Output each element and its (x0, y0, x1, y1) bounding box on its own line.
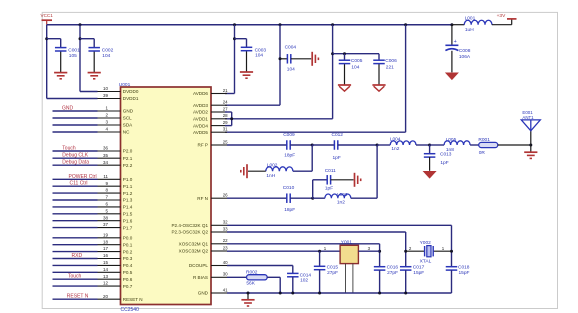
svg-text:11: 11 (103, 174, 108, 179)
pin 30 R_BIAS stub (193, 272, 228, 280)
wire L005 to R001 (470, 144, 479, 146)
svg-text:ANT1: ANT1 (522, 115, 534, 120)
wire DVDD1 drop x47 (47, 25, 98, 99)
capacitor C008 106A polarized (445, 39, 471, 60)
net label C11 Ctrl (70, 181, 88, 187)
wire P2 row y165.2 (53, 164, 98, 166)
capacitor C018 15pF (446, 265, 470, 277)
wire DCOUPL down (292, 266, 294, 274)
node antenna feed (529, 144, 532, 147)
wire XOSC32M Q1 row (227, 243, 380, 245)
wire P1 row y206.9 (53, 206, 98, 208)
pin 10 DVDD0 stub (98, 86, 139, 94)
wire R_BIAS row (227, 276, 247, 278)
svg-text:20: 20 (103, 294, 109, 299)
op-amp U1 IC body CC2540 (121, 87, 212, 305)
capacitor C013 1pF (424, 152, 452, 166)
svg-text:Y001: Y001 (341, 240, 353, 246)
svg-text:R001: R001 (478, 137, 490, 143)
net label Touch P2.0 (62, 146, 76, 152)
svg-text:P1.0: P1.0 (123, 177, 133, 182)
svg-text:DCOUPL: DCOUPL (189, 263, 209, 268)
pin 18 P0.1 stub (98, 239, 133, 247)
pin 41 GND stub (198, 287, 228, 295)
pin 39 DVDD1 stub (98, 93, 139, 101)
pin 17 P0.2 stub (98, 246, 133, 254)
svg-text:+: + (454, 39, 457, 45)
IC part name CC2540 (121, 307, 140, 313)
junction C015 tap (318, 250, 321, 253)
junction C002 tap (79, 37, 82, 40)
svg-text:56K: 56K (246, 281, 255, 287)
junction C003 tap (233, 37, 236, 40)
svg-text:C008: C008 (459, 48, 471, 54)
wire C013 top lead (429, 145, 431, 154)
wire P1 row y193.1 (53, 192, 98, 194)
svg-text:L004: L004 (390, 137, 401, 143)
svg-text:30: 30 (223, 272, 228, 277)
svg-text:104: 104 (351, 64, 359, 70)
svg-text:27pF: 27pF (387, 270, 398, 276)
pin 9 P1.1 stub (98, 181, 133, 189)
wire XOSC32M Q2 row (227, 250, 340, 252)
svg-text:14: 14 (103, 267, 109, 272)
svg-text:R BIAS: R BIAS (193, 275, 208, 280)
wire C011 horizontal (313, 179, 327, 181)
svg-text:AVDD3: AVDD3 (193, 103, 208, 108)
resistor R002 56K (246, 270, 267, 287)
svg-text:24: 24 (223, 100, 228, 105)
svg-text:26: 26 (223, 193, 228, 198)
wire L004 to node3 (416, 144, 430, 146)
wire C004 to ground (291, 58, 311, 60)
wire C001 branch (47, 39, 61, 72)
svg-text:Debug Data: Debug Data (62, 160, 89, 166)
capacitor C017 15pF (400, 265, 425, 277)
pin 27 AVDD2 stub (193, 106, 228, 114)
ground C004 sideways (312, 52, 318, 66)
svg-text:Touch: Touch (68, 274, 82, 280)
junction GND C016 (378, 292, 381, 295)
wire P0 row y279.2 (53, 278, 98, 280)
capacitor C011 1pF (325, 168, 336, 192)
wire C015 bottom (319, 270, 321, 293)
pin 13 P0.6 stub (98, 274, 133, 282)
svg-text:P1.6: P1.6 (123, 218, 133, 223)
wire C011 vertical (312, 180, 314, 198)
wire R001 to antenna node (498, 144, 531, 146)
power net VCC1 symbol (41, 13, 54, 25)
svg-text:RF N: RF N (197, 196, 208, 201)
svg-text:Touch: Touch (62, 146, 76, 152)
IC designator U001 (119, 82, 131, 88)
wire OSC32K Q2 row (227, 231, 406, 233)
svg-text:1uH: 1uH (465, 27, 474, 33)
svg-text:106A: 106A (459, 54, 471, 60)
capacitor C015 27pF (314, 264, 339, 276)
pin 25 RF_P stub (198, 139, 229, 147)
wire P0 row y244.7 (53, 244, 98, 246)
svg-text:RESET N: RESET N (67, 294, 89, 300)
junction rail end x452 (450, 23, 453, 26)
svg-text:P0.1: P0.1 (123, 242, 133, 247)
wire C005 C006 sub-bus (333, 53, 379, 55)
ground C001 (54, 73, 67, 79)
wire antenna feed up (530, 131, 532, 145)
pin 38 P1.6 stub (98, 215, 133, 223)
wire C011 to ground (331, 179, 354, 181)
pin 34 P2.2 stub (98, 160, 133, 168)
pin 26 RF_N stub (197, 193, 228, 201)
pin 12 P0.7 stub (98, 281, 133, 289)
wire P1 row y186.2 (53, 185, 98, 187)
svg-text:34: 34 (103, 160, 109, 165)
junction C004 tap (279, 57, 282, 60)
node RF_P match (311, 144, 314, 147)
wire P2 row y151 (53, 150, 98, 152)
svg-text:NC: NC (123, 130, 130, 135)
svg-text:1pF: 1pF (440, 160, 448, 166)
wire RF_N to C010 (227, 197, 287, 199)
svg-text:L002: L002 (267, 163, 278, 169)
pin 24 AVDD3 stub (193, 100, 228, 108)
ground C002 (88, 73, 101, 79)
wire C014 bottom (292, 277, 294, 293)
inductor L001 1uH (464, 15, 492, 32)
svg-text:AVDD1: AVDD1 (193, 117, 208, 122)
junction C005 tap (343, 52, 346, 55)
svg-text:104: 104 (287, 67, 295, 73)
wire XOSC32M Q1 down (379, 244, 381, 267)
wire C008 bottom lead (451, 51, 453, 73)
net label Debug Data (62, 160, 89, 166)
wire L002 to ground (248, 170, 266, 172)
pin 29 AVDD4 stub (193, 120, 228, 128)
resistor R001 0R (478, 137, 497, 156)
wire P0 row y251.6 (53, 251, 98, 253)
svg-text:1pF: 1pF (325, 186, 333, 192)
svg-text:P2.3-OSC32K Q2: P2.3-OSC32K Q2 (171, 230, 208, 235)
wire RESET row (53, 298, 98, 300)
svg-text:GND: GND (198, 291, 209, 296)
svg-text:C018: C018 (458, 265, 470, 271)
svg-text:U001: U001 (119, 82, 131, 88)
inductor L003 1n2 (325, 192, 351, 205)
svg-text:XOSC32M Q1: XOSC32M Q1 (179, 242, 209, 247)
svg-text:27: 27 (223, 106, 228, 111)
inductor L002 1nH (266, 163, 293, 179)
wire C016 bottom (379, 270, 381, 293)
svg-text:C004: C004 (285, 44, 297, 50)
svg-text:L005: L005 (446, 137, 457, 143)
wire left pin row y132 (53, 131, 98, 133)
junction GND R002 (279, 292, 282, 295)
svg-text:16: 16 (103, 253, 109, 258)
svg-text:P1.3: P1.3 (123, 198, 133, 203)
junction on rail x280 (279, 23, 282, 26)
pin 6 P1.4 stub (98, 202, 133, 210)
svg-text:C001: C001 (68, 47, 80, 53)
junction GND C017 (404, 292, 407, 295)
svg-text:1pF: 1pF (333, 155, 341, 161)
net label Debug CLK (62, 153, 89, 159)
svg-text:SDA: SDA (123, 123, 133, 128)
svg-text:C012: C012 (332, 132, 344, 138)
wire AVDD1 drop x332 (225, 25, 333, 119)
junction GND C014 (291, 292, 294, 295)
junction on rail x234 (233, 23, 236, 26)
svg-text:29: 29 (223, 120, 228, 125)
svg-text:C005: C005 (351, 58, 363, 64)
net label RXD (72, 253, 83, 259)
junction on rail x80 (79, 23, 82, 26)
wire DVDD2 drop x80 (80, 25, 98, 92)
svg-text:18: 18 (103, 239, 109, 244)
svg-text:C017: C017 (413, 265, 425, 271)
capacitor C012 1pF (332, 132, 344, 161)
svg-text:32: 32 (223, 220, 228, 225)
crystal Y001 32MHz body (324, 240, 371, 264)
wire C004 lead (280, 58, 287, 60)
svg-text:C011: C011 (325, 168, 336, 174)
wire OSC32K Q1 down (451, 225, 453, 266)
wire C002 branch (80, 39, 94, 72)
wire GND net row (227, 292, 452, 294)
wire C015 down (319, 251, 321, 266)
svg-text:VCC1: VCC1 (41, 13, 54, 18)
wire AVDD4 row (225, 125, 232, 127)
svg-text:P0.5: P0.5 (123, 270, 133, 275)
svg-text:RXD: RXD (72, 253, 83, 259)
wire AVDD bus vertical (231, 112, 233, 126)
pin 37 P1.7 stub (98, 222, 133, 230)
junction Y002 pin1 (450, 250, 453, 253)
wire C012 to node2 (338, 144, 377, 146)
svg-text:AVDD6: AVDD6 (193, 91, 208, 96)
capacitor C016 27pF (374, 264, 399, 276)
net label POWER Ctrl (69, 174, 97, 180)
junction Y001 pin3 (378, 250, 381, 253)
capacitor C014 102 (287, 272, 311, 283)
wire R002 to ground leg (267, 277, 280, 293)
pin 40 DCOUPL stub (189, 260, 228, 268)
svg-text:P1.2: P1.2 (123, 191, 133, 196)
svg-text:41: 41 (223, 287, 228, 292)
svg-text:P1.5: P1.5 (123, 212, 133, 217)
svg-text:15pF: 15pF (413, 270, 424, 276)
wire left pin row y125 (53, 124, 98, 126)
pin 4 NC stub (98, 127, 131, 135)
svg-text:DVDD1: DVDD1 (123, 96, 139, 101)
pin 5 P1.5 stub (98, 208, 133, 216)
pin 21 AVDD6 stub (193, 88, 228, 96)
svg-text:P0.3: P0.3 (123, 256, 133, 261)
pin 28 AVDD1 stub (193, 113, 228, 121)
wire C008 top lead (451, 25, 453, 45)
pin 33 P2.3-OSC32K_Q2 stub (171, 226, 228, 234)
svg-text:15pF: 15pF (459, 270, 470, 276)
pin 14 P0.5 stub (98, 267, 133, 275)
svg-text:25: 25 (223, 139, 228, 144)
svg-text:XOSC32M Q2: XOSC32M Q2 (179, 249, 209, 254)
wire P0 row y258.5 (53, 258, 98, 260)
net label RESET N (67, 294, 89, 300)
wire DCOUPL row (227, 265, 293, 267)
pin 20 RESET N stub (98, 294, 143, 302)
ground antenna (524, 145, 537, 158)
svg-text:105: 105 (69, 53, 77, 59)
svg-text:10: 10 (103, 86, 109, 91)
junction AVDD bus x AVDD1 (230, 117, 233, 120)
svg-text:P2.4-OSC32K Q1: P2.4-OSC32K Q1 (171, 223, 208, 228)
crystal Y002 XTAL (406, 240, 452, 264)
wire C006 leads (378, 54, 380, 85)
svg-text:13: 13 (103, 274, 109, 279)
svg-text:L001: L001 (465, 15, 476, 21)
power net +3V symbol (497, 13, 517, 19)
wire P0 row y272.3 (53, 271, 98, 273)
wire AVDD2 row (225, 111, 232, 113)
ground C003 (240, 72, 253, 78)
junction on rail x405 (404, 23, 407, 26)
svg-text:P1.1: P1.1 (123, 184, 133, 189)
node RF_N match (311, 197, 314, 200)
antenna E001 ANT1 (521, 110, 540, 131)
wire node to L004 (377, 144, 390, 146)
svg-text:XTAL: XTAL (420, 258, 432, 264)
pin 36 P2.0 stub (98, 146, 133, 154)
svg-text:P2.1: P2.1 (123, 156, 133, 161)
capacitor C002 104 (88, 47, 113, 59)
svg-text:P2.0: P2.0 (123, 149, 133, 154)
pin 31 AVDD5 stub (193, 127, 228, 135)
svg-text:GND: GND (62, 106, 74, 112)
ground C005 (338, 85, 351, 91)
svg-text:37: 37 (103, 222, 109, 227)
pin 19 P0.0 stub (98, 232, 133, 240)
svg-text:C003: C003 (255, 47, 267, 53)
svg-text:19: 19 (103, 232, 109, 237)
svg-text:23: 23 (223, 245, 228, 250)
svg-text:C11 Ctrl: C11 Ctrl (70, 181, 88, 187)
svg-text:R002: R002 (246, 270, 258, 276)
ground C013 (423, 171, 437, 179)
svg-text:17: 17 (103, 246, 109, 251)
svg-text:GND: GND (123, 109, 134, 114)
svg-text:P0.2: P0.2 (123, 249, 133, 254)
svg-text:39: 39 (103, 93, 109, 98)
ground GND net (241, 300, 254, 306)
pin 22 XOSC32M_Q1 stub (179, 238, 229, 246)
svg-text:104: 104 (102, 53, 110, 59)
svg-text:P0.0: P0.0 (123, 236, 133, 241)
svg-text:AVDD2: AVDD2 (193, 110, 208, 115)
svg-text:Y002: Y002 (420, 240, 432, 246)
wire L001 to +3V (492, 19, 512, 25)
svg-text:DVDD0: DVDD0 (123, 89, 139, 94)
svg-text:C009: C009 (283, 132, 295, 138)
svg-text:P0.6: P0.6 (123, 277, 133, 282)
wire Y001 pin3 lead (358, 250, 379, 252)
svg-text:P0.4: P0.4 (123, 263, 133, 268)
wire P0 row y237.8 (53, 237, 98, 239)
svg-text:15: 15 (103, 260, 109, 265)
capacitor C010 18pF (283, 185, 295, 213)
pin 15 P0.4 stub (98, 260, 133, 268)
svg-text:P1.4: P1.4 (123, 205, 133, 210)
wire node to C012 (312, 144, 334, 146)
svg-text:P0.7: P0.7 (123, 284, 133, 289)
wire AVDD6 drop x234 (225, 25, 235, 94)
wire VCC rail (47, 24, 452, 26)
svg-text:40: 40 (223, 260, 228, 265)
wire C009 to node (290, 144, 312, 146)
node RF mid (376, 144, 379, 147)
svg-text:33: 33 (223, 226, 228, 231)
pin 1 GND stub (98, 106, 134, 114)
svg-text:1n2: 1n2 (337, 199, 345, 205)
wire node to L003 (313, 197, 325, 199)
wire C005 leads (344, 54, 346, 85)
svg-text:P2.2: P2.2 (123, 163, 133, 168)
junction C005 bus tap (331, 52, 334, 55)
svg-text:21: 21 (223, 88, 228, 93)
svg-text:36: 36 (103, 146, 109, 151)
wire left pin row y111 (53, 110, 98, 112)
wire OSC32K Q1 row (227, 224, 452, 226)
pin 16 P0.3 stub (98, 253, 133, 261)
pin 8 P1.2 stub (98, 188, 133, 196)
wire AVDD5 drop x405 (225, 25, 406, 133)
wire L003 to vertical (351, 197, 377, 199)
svg-text:C016: C016 (387, 264, 399, 270)
svg-text:P1.7: P1.7 (123, 225, 133, 230)
svg-text:C002: C002 (102, 47, 114, 53)
wire P1 row y213.8 (53, 213, 98, 215)
wire P1 row y220.7 (53, 220, 98, 222)
wire C013 bottom lead (429, 157, 431, 171)
svg-text:22: 22 (223, 238, 228, 243)
wire C018 bottom (451, 270, 453, 293)
svg-text:38: 38 (103, 215, 109, 220)
pin 2 SCL stub (98, 113, 133, 121)
pin 23 XOSC32M_Q2 stub (179, 245, 229, 253)
wire rail to L001 (452, 24, 464, 26)
capacitor C005 104 (339, 58, 363, 70)
wire Y001 ground legs (346, 264, 353, 293)
pin 32 P2.4-OSC32K_Q1 stub (171, 220, 228, 228)
capacitor C004 104 (285, 44, 297, 72)
junction GND stub (247, 292, 250, 295)
wire L002 horizontal (293, 170, 312, 172)
svg-text:18pF: 18pF (284, 207, 295, 213)
svg-text:18pF: 18pF (284, 153, 295, 159)
pin 7 P1.3 stub (98, 195, 133, 203)
svg-text:1nH: 1nH (266, 173, 275, 179)
svg-text:AVDD5: AVDD5 (193, 130, 208, 135)
pin 35 P2.1 stub (98, 153, 133, 161)
capacitor C009 18pF (283, 132, 295, 159)
ground C006 (372, 85, 385, 91)
svg-text:0R: 0R (479, 150, 486, 156)
svg-text:C006: C006 (385, 58, 397, 64)
wire C010 to node (290, 197, 313, 199)
svg-text:102: 102 (300, 277, 308, 283)
wire AVDD3 drop x280 (225, 25, 280, 106)
svg-text:+3V: +3V (497, 13, 506, 19)
svg-text:RESET N: RESET N (123, 297, 143, 302)
ground L002 sideways (241, 164, 247, 178)
